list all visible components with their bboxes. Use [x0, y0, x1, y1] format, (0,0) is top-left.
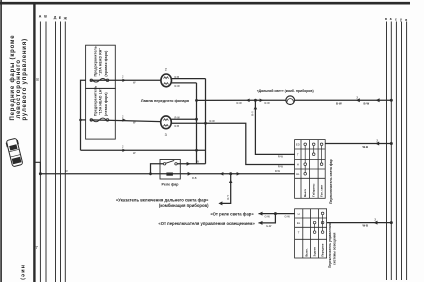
wire switch ED to rail — [325, 143, 391, 145]
node annotation join — [274, 212, 277, 215]
svg-text:EL: EL — [297, 221, 301, 225]
headlight switch block — [295, 140, 326, 199]
bus line 1 — [39, 22, 41, 282]
dimmer position labels — [305, 243, 325, 256]
svg-text:HL: HL — [296, 172, 300, 176]
wire bulb RH high to V2 — [171, 78, 205, 80]
svg-text:(левая фара): (левая фара) — [104, 92, 108, 116]
wire to cluster annotation — [222, 174, 231, 204]
dimmer contacts grid — [313, 212, 324, 233]
svg-text:«Дальний свет» (комб. приборов: «Дальний свет» (комб. приборов) — [257, 89, 314, 93]
svg-text:R-W: R-W — [278, 165, 284, 169]
svg-text:R-W: R-W — [237, 101, 243, 105]
wire V2 vertical — [205, 79, 207, 164]
node V1 indicator tap — [195, 99, 198, 102]
svg-text:у: у — [400, 18, 402, 22]
wire V1 vertical — [196, 83, 198, 164]
svg-text:R-B: R-B — [175, 124, 180, 128]
border frame top — [0, 2, 410, 5]
connector pair on indicator wire — [246, 99, 250, 103]
svg-text:G-W: G-W — [266, 224, 272, 228]
connector arrow on return wire — [122, 149, 125, 152]
wire bulb LH low to switch H — [206, 123, 295, 164]
node fuse feed F2 — [79, 119, 82, 122]
svg-text:(правая фара): (правая фара) — [104, 51, 108, 77]
svg-text:R-W: R-W — [210, 119, 216, 123]
right rail 3 — [395, 22, 397, 281]
wire dimmer EL to rail — [327, 222, 392, 224]
svg-text:В: В — [44, 15, 47, 19]
svg-text:"15A HEAD LH": "15A HEAD LH" — [99, 87, 103, 115]
right rail 2 — [390, 22, 392, 281]
wire bulb LH low to V2 — [171, 122, 205, 124]
svg-text:W-B: W-B — [363, 224, 369, 228]
indicator lamp high beam — [286, 96, 295, 105]
svg-text:«От реле света фар»: «От реле света фар» — [210, 212, 254, 217]
svg-text:Переднее: Переднее — [321, 243, 325, 256]
label lamp note — [141, 99, 189, 103]
svg-text:Предохранитель: Предохранитель — [93, 86, 97, 116]
svg-text:с: с — [395, 18, 397, 22]
svg-text:B-W: B-W — [336, 101, 342, 105]
relay contact — [163, 163, 165, 165]
wire F1 to bulb RH — [90, 79, 161, 81]
svg-text:Реле фар: Реле фар — [162, 182, 180, 186]
switch contacts grid — [304, 143, 323, 175]
node V1 bulb LH high join — [195, 118, 198, 121]
svg-text:ED: ED — [296, 143, 300, 147]
wire common return y150 — [81, 149, 206, 151]
sidebar next-section fragment "ние)" — [20, 265, 26, 281]
svg-text:Выкл.: Выкл. — [303, 188, 307, 196]
grid label 8 — [36, 77, 39, 82]
svg-text:А: А — [39, 15, 42, 19]
node indicator annotation branch — [229, 172, 232, 175]
grid label 7 — [35, 245, 38, 250]
svg-text:Габариты: Габариты — [312, 183, 316, 197]
svg-text:R-W: R-W — [175, 115, 181, 119]
svg-text:а: а — [390, 17, 392, 21]
svg-text:G-W: G-W — [285, 215, 291, 219]
bus line 5 — [64, 22, 66, 282]
svg-text:Гол. свет: Гол. свет — [320, 184, 324, 197]
node V2 bulb LH low — [204, 122, 207, 125]
bus line labels A B D E Zh — [39, 15, 68, 21]
fuse F2 symbol — [90, 119, 93, 122]
right rail 5 — [406, 22, 408, 281]
fuse F1 symbol — [90, 79, 93, 82]
svg-text:R-Y: R-Y — [226, 195, 230, 200]
bus line 3 — [55, 22, 57, 282]
relay box Реле фар — [160, 160, 180, 180]
wire annotation A to dimmer — [259, 213, 295, 215]
svg-text:R-B: R-B — [192, 176, 197, 180]
svg-text:Заднее: Заднее — [313, 246, 317, 256]
wire branch to switch T — [255, 100, 294, 154]
fuse box F2 15A HEAD LH — [86, 88, 116, 139]
svg-text:H: H — [298, 212, 300, 216]
node relay pilot tap — [149, 172, 152, 175]
svg-text:Предохранитель: Предохранитель — [93, 46, 97, 76]
node main wire start — [39, 172, 42, 175]
wire bulb RH low to V1 — [171, 82, 196, 84]
node indicator branch — [254, 99, 257, 102]
fuse box F1 15A HEAD RH — [86, 45, 116, 88]
connector arrow on F2 wire — [122, 118, 125, 121]
sidebar car icon — [5, 138, 24, 167]
connector pair on main wire — [220, 172, 224, 176]
headlamp bulb RH — [161, 74, 172, 87]
svg-text:системы освещения: системы освещения — [332, 233, 336, 265]
right rail 1 — [386, 22, 388, 281]
svg-text:R-W: R-W — [265, 101, 271, 105]
connector arrows near rail — [356, 98, 360, 102]
svg-text:Выкл.: Выкл. — [305, 248, 309, 256]
svg-text:Ж: Ж — [63, 17, 68, 21]
node return V1 — [195, 149, 198, 152]
bus line 2 — [45, 22, 47, 282]
wire high-beam indicator — [197, 99, 286, 101]
svg-text:«От переключателя управления о: «От переключателя управления освещением» — [158, 221, 255, 226]
svg-text:W-B: W-B — [363, 145, 369, 149]
svg-text:Д: Д — [54, 16, 57, 20]
svg-text:"15A HEAD RH": "15A HEAD RH" — [99, 48, 103, 76]
svg-text:R-Y: R-Y — [251, 111, 255, 116]
wire indicator to rail — [295, 99, 392, 101]
svg-text:рулевого управления): рулевого управления) — [22, 38, 28, 120]
connector arrow on F1 wire — [122, 79, 125, 82]
wire relay contact out — [177, 163, 205, 165]
svg-text:2: 2 — [165, 67, 167, 71]
right rail 4 — [401, 22, 403, 281]
svg-text:R-W: R-W — [175, 84, 181, 88]
label switch name — [329, 159, 333, 204]
wire fuse feed vertical — [81, 80, 86, 150]
svg-text:R-W: R-W — [278, 154, 284, 158]
svg-text:(комбинация приборов): (комбинация приборов) — [159, 203, 209, 208]
wire relay pilot — [151, 164, 164, 174]
switch position labels — [303, 183, 323, 197]
wire main feed y174 — [40, 173, 294, 175]
relay coil — [166, 173, 173, 176]
svg-text:левостороннего: левостороннего — [16, 59, 22, 118]
svg-text:ние): ние) — [20, 265, 26, 281]
wire F2 to bulb LH — [90, 120, 161, 122]
svg-text:3: 3 — [165, 133, 167, 137]
right rail labels — [385, 17, 407, 22]
wire annotation B riser — [259, 214, 276, 223]
svg-text:в: в — [405, 18, 407, 22]
svg-text:H: H — [297, 162, 299, 166]
svg-text:B-W: B-W — [364, 101, 370, 105]
dimmer switch block — [295, 209, 327, 258]
bus line 4 — [60, 22, 62, 282]
svg-text:Лампа переднего фонаря: Лампа переднего фонаря — [141, 99, 189, 103]
svg-text:в: в — [385, 17, 387, 21]
svg-text:G-W: G-W — [265, 215, 271, 219]
headlamp bulb LH — [161, 116, 172, 129]
node relay coil in (shared) — [192, 176, 197, 180]
label cluster annotation — [116, 198, 209, 208]
svg-text:R-B: R-B — [175, 75, 180, 79]
label annotation from relay — [158, 212, 255, 226]
node on rail 2 — [390, 99, 393, 102]
wire bulb LH high to V1 — [171, 118, 196, 120]
label dimmer name — [328, 223, 336, 268]
svg-text:Переключатель света фар: Переключатель света фар — [329, 159, 333, 204]
wire border stub — [34, 162, 40, 174]
sidebar title: Передние фары — [9, 35, 28, 121]
svg-text:R-W: R-W — [275, 169, 281, 173]
